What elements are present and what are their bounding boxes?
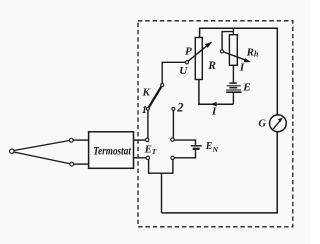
wire bottom bus and right column up to G <box>162 132 278 213</box>
thermocouple wire lower <box>14 152 70 164</box>
dashed enclosure border <box>138 21 293 227</box>
svg-text:Rh: Rh <box>246 46 259 58</box>
svg-text:1: 1 <box>142 105 147 116</box>
node EN top <box>171 138 174 141</box>
node ET top <box>134 138 149 141</box>
junction wires below ET and EN <box>148 160 174 213</box>
svg-text:E: E <box>242 81 250 93</box>
thermocouple upper terminal <box>69 138 73 142</box>
wire Rh to battery E <box>232 65 234 82</box>
svg-text:R: R <box>207 60 216 72</box>
wire lower terminal to termostat box <box>74 163 89 165</box>
svg-text:P: P <box>185 45 192 57</box>
battery E <box>226 83 241 92</box>
battery EN <box>191 146 202 149</box>
wire terminal 2 down to EN <box>172 111 174 138</box>
thermocouple wire upper <box>14 141 70 151</box>
potentiometer wiper arrow P <box>185 42 212 64</box>
wire wiper to switch K <box>162 62 185 84</box>
wire upper terminal to termostat box <box>73 139 88 141</box>
svg-text:I: I <box>239 61 245 73</box>
thermostat box <box>89 132 134 169</box>
switch K <box>146 84 163 111</box>
node ET bottom <box>134 156 150 159</box>
wire R bottom to battery bottom <box>199 80 234 104</box>
svg-text:U: U <box>179 65 188 77</box>
wire top bus with corners down to R and G <box>200 28 278 115</box>
thermocouple hot junction <box>10 149 14 153</box>
thermocouple lower terminal <box>70 162 74 166</box>
node EN bottom <box>171 156 174 159</box>
wire battery E to bottom <box>232 93 234 104</box>
terminal 2 <box>172 107 175 110</box>
svg-text:Termostat: Termostat <box>93 144 131 158</box>
resistor R <box>195 38 202 80</box>
svg-text:2: 2 <box>176 101 183 115</box>
svg-text:EN: EN <box>205 141 219 154</box>
wire EN top to battery <box>174 140 195 145</box>
galvanometer G <box>270 115 287 132</box>
svg-text:K: K <box>142 86 151 98</box>
svg-text:I: I <box>211 106 217 118</box>
wire terminal 1 down to ET <box>147 110 149 138</box>
rheostat Rh <box>229 35 237 66</box>
svg-text:G: G <box>258 119 266 130</box>
rheostat wiper arrow <box>220 50 251 62</box>
wire battery EN to node <box>174 150 195 158</box>
svg-text:ET: ET <box>144 144 157 156</box>
wire top bus to Rh and wiper branch <box>222 28 233 50</box>
current arrow I on bottom wire <box>211 102 217 107</box>
